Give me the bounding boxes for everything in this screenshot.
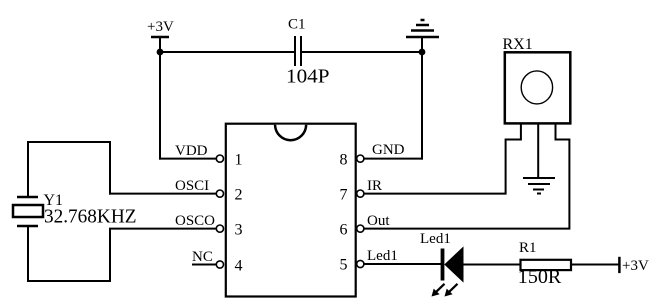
pin 3 [216,221,242,238]
pin 4 [216,257,242,274]
wire crystal bottom lead [27,226,29,282]
svg-text:Out: Out [367,213,390,229]
power +3V terminal (top left) [147,19,174,37]
ground symbol (top right, pointing up) [406,20,439,37]
pin 1 [216,151,242,168]
pin 6 [340,221,364,238]
resistor R1 [518,240,571,288]
svg-text:4: 4 [235,257,243,274]
wire down to OSCI [109,141,111,195]
wire VDD pin 1 horizontal [159,158,217,160]
node junction at +3V [157,49,164,56]
svg-text:+3V: +3V [622,258,649,274]
svg-text:104P: 104P [286,66,330,88]
svg-text:OSCO: OSCO [175,213,215,229]
svg-text:150R: 150R [518,266,562,288]
wire OSCO pin 3 horizontal [109,228,217,230]
svg-text:6: 6 [340,221,348,238]
IC U1 (8-pin DIP) body [226,124,356,297]
svg-text:1: 1 [235,151,243,168]
svg-text:8: 8 [340,151,348,168]
ground symbol (under RX1) [523,178,555,194]
wire R1 to +3V [571,264,619,266]
wire GND pin 8 horizontal [364,158,423,160]
wire NC stub pin 4 [192,264,217,266]
pin 8 [340,151,364,168]
wire +3V stub down to junction [159,37,161,54]
IR receiver RX1 [503,36,571,124]
pin 2 [216,186,242,203]
svg-text:RX1: RX1 [503,36,533,53]
svg-text:IR: IR [367,178,382,194]
pin 5 [340,256,364,273]
svg-text:R1: R1 [519,240,537,256]
wire LED to R1 [463,264,521,266]
power +3V terminal (bottom right) [619,257,649,274]
svg-text:Led1: Led1 [367,248,398,264]
svg-text:NC: NC [192,249,213,265]
svg-text:GND: GND [372,142,405,158]
svg-text:32.768KHZ: 32.768KHZ [44,205,137,227]
svg-text:Led1: Led1 [420,231,451,247]
capacitor C1 [286,17,330,88]
wire OSCI pin 2 horizontal [109,193,217,195]
svg-text:OSCI: OSCI [175,178,209,194]
wire up to OSCO [109,229,111,282]
wire ground vertical down to GND pin [421,37,423,160]
node junction at ground rail [419,49,426,56]
wire top rail left of C1 [159,51,295,53]
wire top rail right of C1 [301,51,423,53]
LED Led1 [420,231,463,297]
svg-text:3: 3 [235,221,243,238]
wire crystal top lead [27,142,29,197]
crystal Y1 [13,192,137,227]
wire crystal loop bottom [27,280,111,282]
svg-text:2: 2 [235,186,243,203]
pin 7 [340,186,364,203]
svg-text:7: 7 [340,186,348,203]
wire Out pin 6 to RX1 right leg [364,124,569,229]
svg-text:VDD: VDD [175,143,208,159]
wire RX1 middle leg [537,124,539,178]
wire Led1 pin 5 to LED [364,263,442,265]
svg-text:C1: C1 [288,17,306,33]
svg-text:+3V: +3V [147,19,174,35]
svg-text:5: 5 [340,256,348,273]
wire IR pin 7 to RX1 left leg [364,124,521,194]
wire +3V vertical down to VDD [159,52,161,160]
wire crystal loop top [27,141,111,143]
